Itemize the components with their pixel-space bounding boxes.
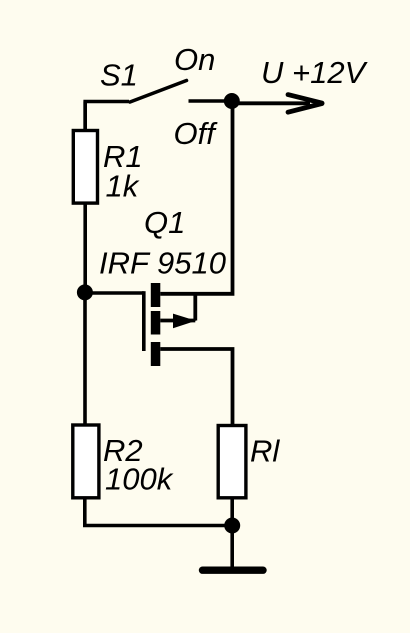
wire: switch S1 right contact to +12V node	[189, 99, 233, 103]
transistor Q1 source bar (top)	[151, 283, 161, 307]
svg-text:On: On	[174, 42, 215, 77]
wire: left rail gate node to R2	[83, 292, 87, 424]
svg-text:1k: 1k	[106, 169, 140, 204]
supply arrow U +12V shaft	[232, 101, 310, 105]
wire: left rail S1 to R1	[83, 102, 87, 131]
svg-text:IRF 9510: IRF 9510	[99, 246, 226, 281]
supply arrow U +12V head	[288, 95, 322, 104]
svg-text:Q1: Q1	[144, 205, 185, 240]
wire: Q1 substrate stub to source line	[193, 294, 197, 321]
transistor Q1 substrate bar (middle)	[151, 311, 161, 335]
resistor R2	[73, 425, 99, 498]
wire: gate node to Q1 gate	[85, 291, 144, 295]
transistor Q1 gate line	[142, 291, 146, 351]
svg-text:Off: Off	[174, 116, 219, 151]
svg-text:100k: 100k	[105, 462, 174, 497]
svg-text:S1: S1	[100, 57, 138, 92]
wire: Rl bottom to ground node	[230, 498, 234, 526]
transistor Q1 substrate arrow line	[160, 319, 195, 323]
wire: Q1 source to +12V node (vertical rail and horizontal run)	[160, 101, 232, 294]
resistor R1	[73, 131, 97, 204]
wire: left rail R1 to gate node	[83, 203, 87, 292]
junction: +12V supply node	[224, 93, 240, 109]
svg-text:U +12V: U +12V	[261, 55, 369, 90]
resistor Rl	[218, 426, 246, 498]
wire: R2 bottom to ground node	[85, 498, 232, 526]
transistor Q1 substrate arrowhead (points right, P-channel)	[173, 314, 196, 329]
transistor Q1 drain bar (bottom)	[151, 342, 161, 366]
junction: gate node	[77, 284, 93, 300]
ground	[203, 567, 264, 574]
wire: Q1 drain to Rl (horizontal run and vertical rail)	[160, 349, 232, 425]
wire: ground node to ground symbol	[230, 526, 234, 571]
svg-text:Rl: Rl	[250, 434, 280, 469]
switch S1 lever	[130, 81, 187, 103]
junction: ground node	[224, 518, 240, 534]
wire: top-left rail corner to switch S1 left contact	[85, 102, 129, 130]
